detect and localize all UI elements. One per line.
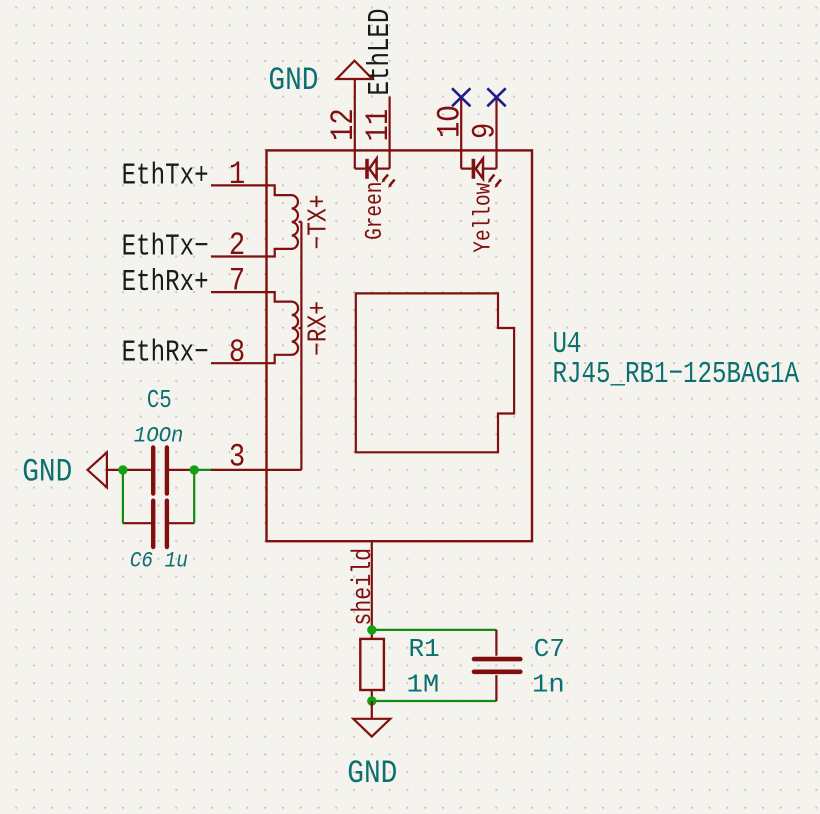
svg-text:8: 8 (229, 334, 245, 371)
svg-text:Yellow: Yellow (470, 183, 497, 253)
pin sheild (349, 541, 379, 630)
pin 8 (211, 334, 267, 371)
svg-text:Green: Green (361, 182, 388, 240)
power symbol GND (left) (22, 452, 123, 491)
no-connect pin 9 (487, 88, 505, 106)
wire C5 left to C6 left (122, 470, 124, 523)
svg-text:1OOn: 1OOn (134, 424, 184, 449)
transformer TX winding (267, 185, 298, 256)
wire sheild node to C7 top (372, 629, 497, 631)
svg-text:GND: GND (22, 455, 72, 491)
wire to pin 3 (194, 469, 211, 471)
resistor R1 (360, 630, 384, 701)
svg-text:C6 1u: C6 1u (130, 550, 188, 574)
RJ45 jack graphic (356, 293, 514, 452)
svg-text:EthTx−: EthTx− (122, 230, 209, 265)
pin 12 (325, 79, 362, 169)
svg-text:EthRx−: EthRx− (122, 336, 209, 371)
LED green indicator (pins 12-11) (355, 159, 395, 188)
svg-text:12: 12 (325, 108, 362, 141)
svg-text:C5: C5 (147, 386, 172, 416)
junction left (118, 465, 127, 474)
transformer center-tap line to pin 3 (267, 222, 302, 470)
LED yellow indicator (pins 10-9) (461, 159, 501, 188)
power symbol GND (top) (268, 61, 372, 100)
svg-text:9: 9 (467, 123, 504, 139)
capacitor C7 (474, 630, 520, 701)
svg-text:2: 2 (229, 227, 245, 264)
pin 9 (467, 97, 504, 168)
svg-text:R1: R1 (409, 634, 440, 664)
svg-text:1M: 1M (407, 671, 440, 700)
pin 7 (211, 263, 267, 300)
junction sheild node (367, 625, 376, 634)
pin 2 (211, 227, 267, 264)
pin 10 (431, 97, 468, 168)
pin 1 (211, 156, 267, 193)
svg-text:GND: GND (268, 63, 318, 99)
junction bottom node (367, 696, 376, 705)
power symbol GND (bottom) (347, 701, 397, 792)
svg-text:EthLED: EthLED (363, 8, 398, 95)
pin 11 (360, 97, 397, 169)
symbol U4 body outline (267, 150, 533, 541)
svg-text:−TX+: −TX+ (303, 194, 334, 249)
svg-text:1: 1 (229, 156, 245, 193)
svg-text:11: 11 (360, 109, 397, 142)
svg-text:−RX+: −RX+ (303, 301, 334, 356)
svg-text:3: 3 (229, 438, 245, 475)
svg-text:1n: 1n (532, 671, 565, 700)
svg-text:EthTx+: EthTx+ (122, 159, 209, 194)
svg-text:RJ45_RB1−125BAG1A: RJ45_RB1−125BAG1A (553, 357, 800, 392)
pin 3 (211, 438, 267, 475)
svg-text:1O: 1O (431, 105, 468, 138)
wire C7 bottom to R1 bottom (372, 700, 497, 702)
svg-text:7: 7 (229, 263, 245, 300)
svg-text:sheild: sheild (349, 548, 379, 626)
svg-text:GND: GND (347, 756, 397, 792)
svg-text:EthRx+: EthRx+ (122, 265, 209, 300)
capacitor C5 (123, 448, 194, 494)
wire C5 right to C6 right (193, 470, 195, 523)
junction right (190, 465, 199, 474)
transformer RX winding (267, 292, 299, 363)
no-connect pin 10 (452, 88, 470, 106)
svg-text:C7: C7 (534, 634, 565, 664)
capacitor C6 (123, 501, 194, 547)
